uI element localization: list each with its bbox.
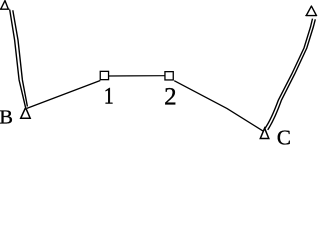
- slider joint square 1: [100, 71, 108, 79]
- ground pivot triangle A (top-left support): [0, 1, 9, 10]
- slider joint square 2: [165, 72, 173, 80]
- wire B to joint 1: [27, 81, 101, 109]
- link A-B right stroke (wire): [13, 10, 28, 106]
- wire joint 1 to joint 2: [109, 75, 165, 77]
- ground pivot triangle D (top-right support): [306, 6, 317, 15]
- svg-text:C: C: [277, 125, 291, 148]
- pin joint triangle B: [21, 108, 31, 119]
- svg-text:1: 1: [104, 83, 114, 109]
- link A-B left stroke (wire): [10, 10, 26, 107]
- svg-text:B: B: [0, 107, 13, 129]
- pin joint triangle C: [260, 128, 269, 138]
- wire joint 2 to C: [174, 81, 263, 132]
- svg-text:2: 2: [164, 84, 177, 111]
- link C-D right stroke (wire): [268, 19, 316, 130]
- link C-D left stroke (wire): [265, 19, 312, 129]
